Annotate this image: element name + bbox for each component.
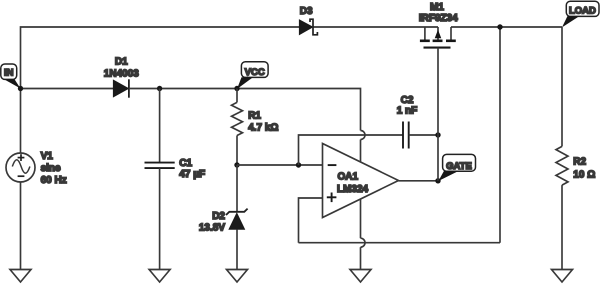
voltage source V1 bbox=[6, 153, 35, 182]
net label GATE bbox=[438, 154, 475, 181]
svg-text:10 Ω: 10 Ω bbox=[573, 169, 595, 180]
M1 gate plate bbox=[424, 47, 451, 49]
ground (op-amp) bbox=[350, 270, 371, 283]
wire: M1 drain to LOAD corner bbox=[451, 26, 562, 28]
resistor R2 bbox=[556, 27, 568, 270]
op-amp minus symbol bbox=[328, 164, 337, 166]
op-amp output wire bbox=[399, 180, 439, 182]
node: VCC junction bbox=[234, 86, 239, 91]
wire: feedback vertical up to top rail bbox=[499, 27, 501, 243]
node: top rail / feedback junction bbox=[497, 24, 502, 29]
wire: D2 top lead bbox=[236, 165, 238, 212]
diode D3 (schottky) bbox=[299, 19, 317, 35]
resistor R1 bbox=[232, 89, 243, 166]
wire: feedback row bbox=[299, 242, 501, 244]
M1 source leg bbox=[424, 27, 426, 40]
svg-text:13.8V: 13.8V bbox=[199, 222, 225, 233]
ground (V1) bbox=[10, 270, 31, 283]
mosfet M1 (IRF9Z34 P-channel) bbox=[420, 27, 456, 181]
svg-text:R2: R2 bbox=[573, 157, 586, 168]
M1 body stub with arrow bbox=[437, 27, 439, 40]
svg-text:LOAD: LOAD bbox=[569, 6, 596, 17]
diode D1 bbox=[113, 79, 128, 97]
wire: plus input left and down to feedback row bbox=[299, 198, 323, 243]
svg-text:D3: D3 bbox=[300, 6, 313, 17]
svg-text:1 nF: 1 nF bbox=[397, 105, 418, 116]
svg-text:D1: D1 bbox=[115, 57, 128, 68]
svg-text:47 µF: 47 µF bbox=[179, 169, 205, 180]
net label LOAD bbox=[562, 1, 599, 27]
svg-text:C2: C2 bbox=[401, 95, 414, 106]
M1 channel bars bbox=[420, 39, 456, 42]
wire hop: opamp VCC pin over C2 wire bbox=[361, 131, 366, 140]
ground (R2) bbox=[552, 270, 573, 283]
svg-text:V1: V1 bbox=[41, 151, 54, 162]
wire: reference row to - input bbox=[237, 164, 323, 166]
svg-text:LM324: LM324 bbox=[337, 184, 369, 195]
wire: C1 top lead bbox=[159, 89, 161, 163]
node: minus input junction bbox=[296, 162, 301, 167]
svg-text:1N4003: 1N4003 bbox=[104, 68, 139, 79]
ground (D2) bbox=[227, 270, 248, 283]
node: C2 / gate lead junction bbox=[435, 132, 440, 137]
svg-text:R1: R1 bbox=[248, 110, 261, 121]
node: R1/D2 reference junction bbox=[234, 162, 239, 167]
capacitor C2 bbox=[403, 122, 409, 149]
wire: D3 cathode to M1 source/body bbox=[313, 26, 438, 28]
wire: minus junction up and right to C2 bbox=[299, 135, 404, 165]
svg-text:D2: D2 bbox=[212, 211, 225, 222]
svg-text:60 Hz: 60 Hz bbox=[41, 175, 67, 186]
ground (C1) bbox=[149, 270, 170, 283]
wire: D1 cathode to opamp VCC pin corner bbox=[129, 89, 361, 131]
wire: main rail y=88.5 from IN to D1 anode bbox=[21, 88, 114, 90]
wire: opamp VCC pin lower part bbox=[360, 140, 362, 163]
wire: opamp VEE pin upper bbox=[360, 199, 362, 238]
svg-text:VCC: VCC bbox=[245, 67, 265, 78]
svg-text:GATE: GATE bbox=[446, 161, 472, 172]
wire: C1 bottom lead bbox=[159, 168, 161, 269]
capacitor C1 bbox=[145, 163, 175, 169]
wire: VEE pin to ground bbox=[360, 247, 362, 269]
node: C1 tap junction bbox=[157, 86, 162, 91]
M1 drain leg bbox=[450, 27, 452, 40]
op-amp OA1 triangle bbox=[323, 144, 399, 218]
zener diode D2 bbox=[226, 209, 248, 270]
wire: C2 right plate to gate lead bbox=[409, 134, 438, 136]
node: gate node junction bbox=[435, 178, 440, 183]
node: IN junction bbox=[18, 86, 23, 91]
wire: top rail left (IN up to D3 anode) bbox=[21, 27, 300, 89]
svg-text:IRF9Z34: IRF9Z34 bbox=[419, 13, 458, 24]
wire: IN node down to V1 bbox=[20, 89, 22, 154]
svg-text:M1: M1 bbox=[430, 2, 444, 13]
net label VCC bbox=[237, 62, 268, 89]
wire hop: VEE pin over feedback row bbox=[361, 238, 366, 247]
wire: V1 to ground bbox=[20, 182, 22, 270]
net label IN bbox=[1, 64, 21, 89]
M1 gate lead down to gate node bbox=[437, 48, 439, 181]
op-amp plus symbol bbox=[327, 193, 337, 203]
svg-text:4.7 kΩ: 4.7 kΩ bbox=[248, 122, 278, 133]
svg-text:IN: IN bbox=[4, 67, 14, 78]
svg-text:sine: sine bbox=[41, 163, 61, 174]
svg-text:C1: C1 bbox=[179, 158, 192, 169]
svg-text:OA1: OA1 bbox=[338, 171, 359, 182]
